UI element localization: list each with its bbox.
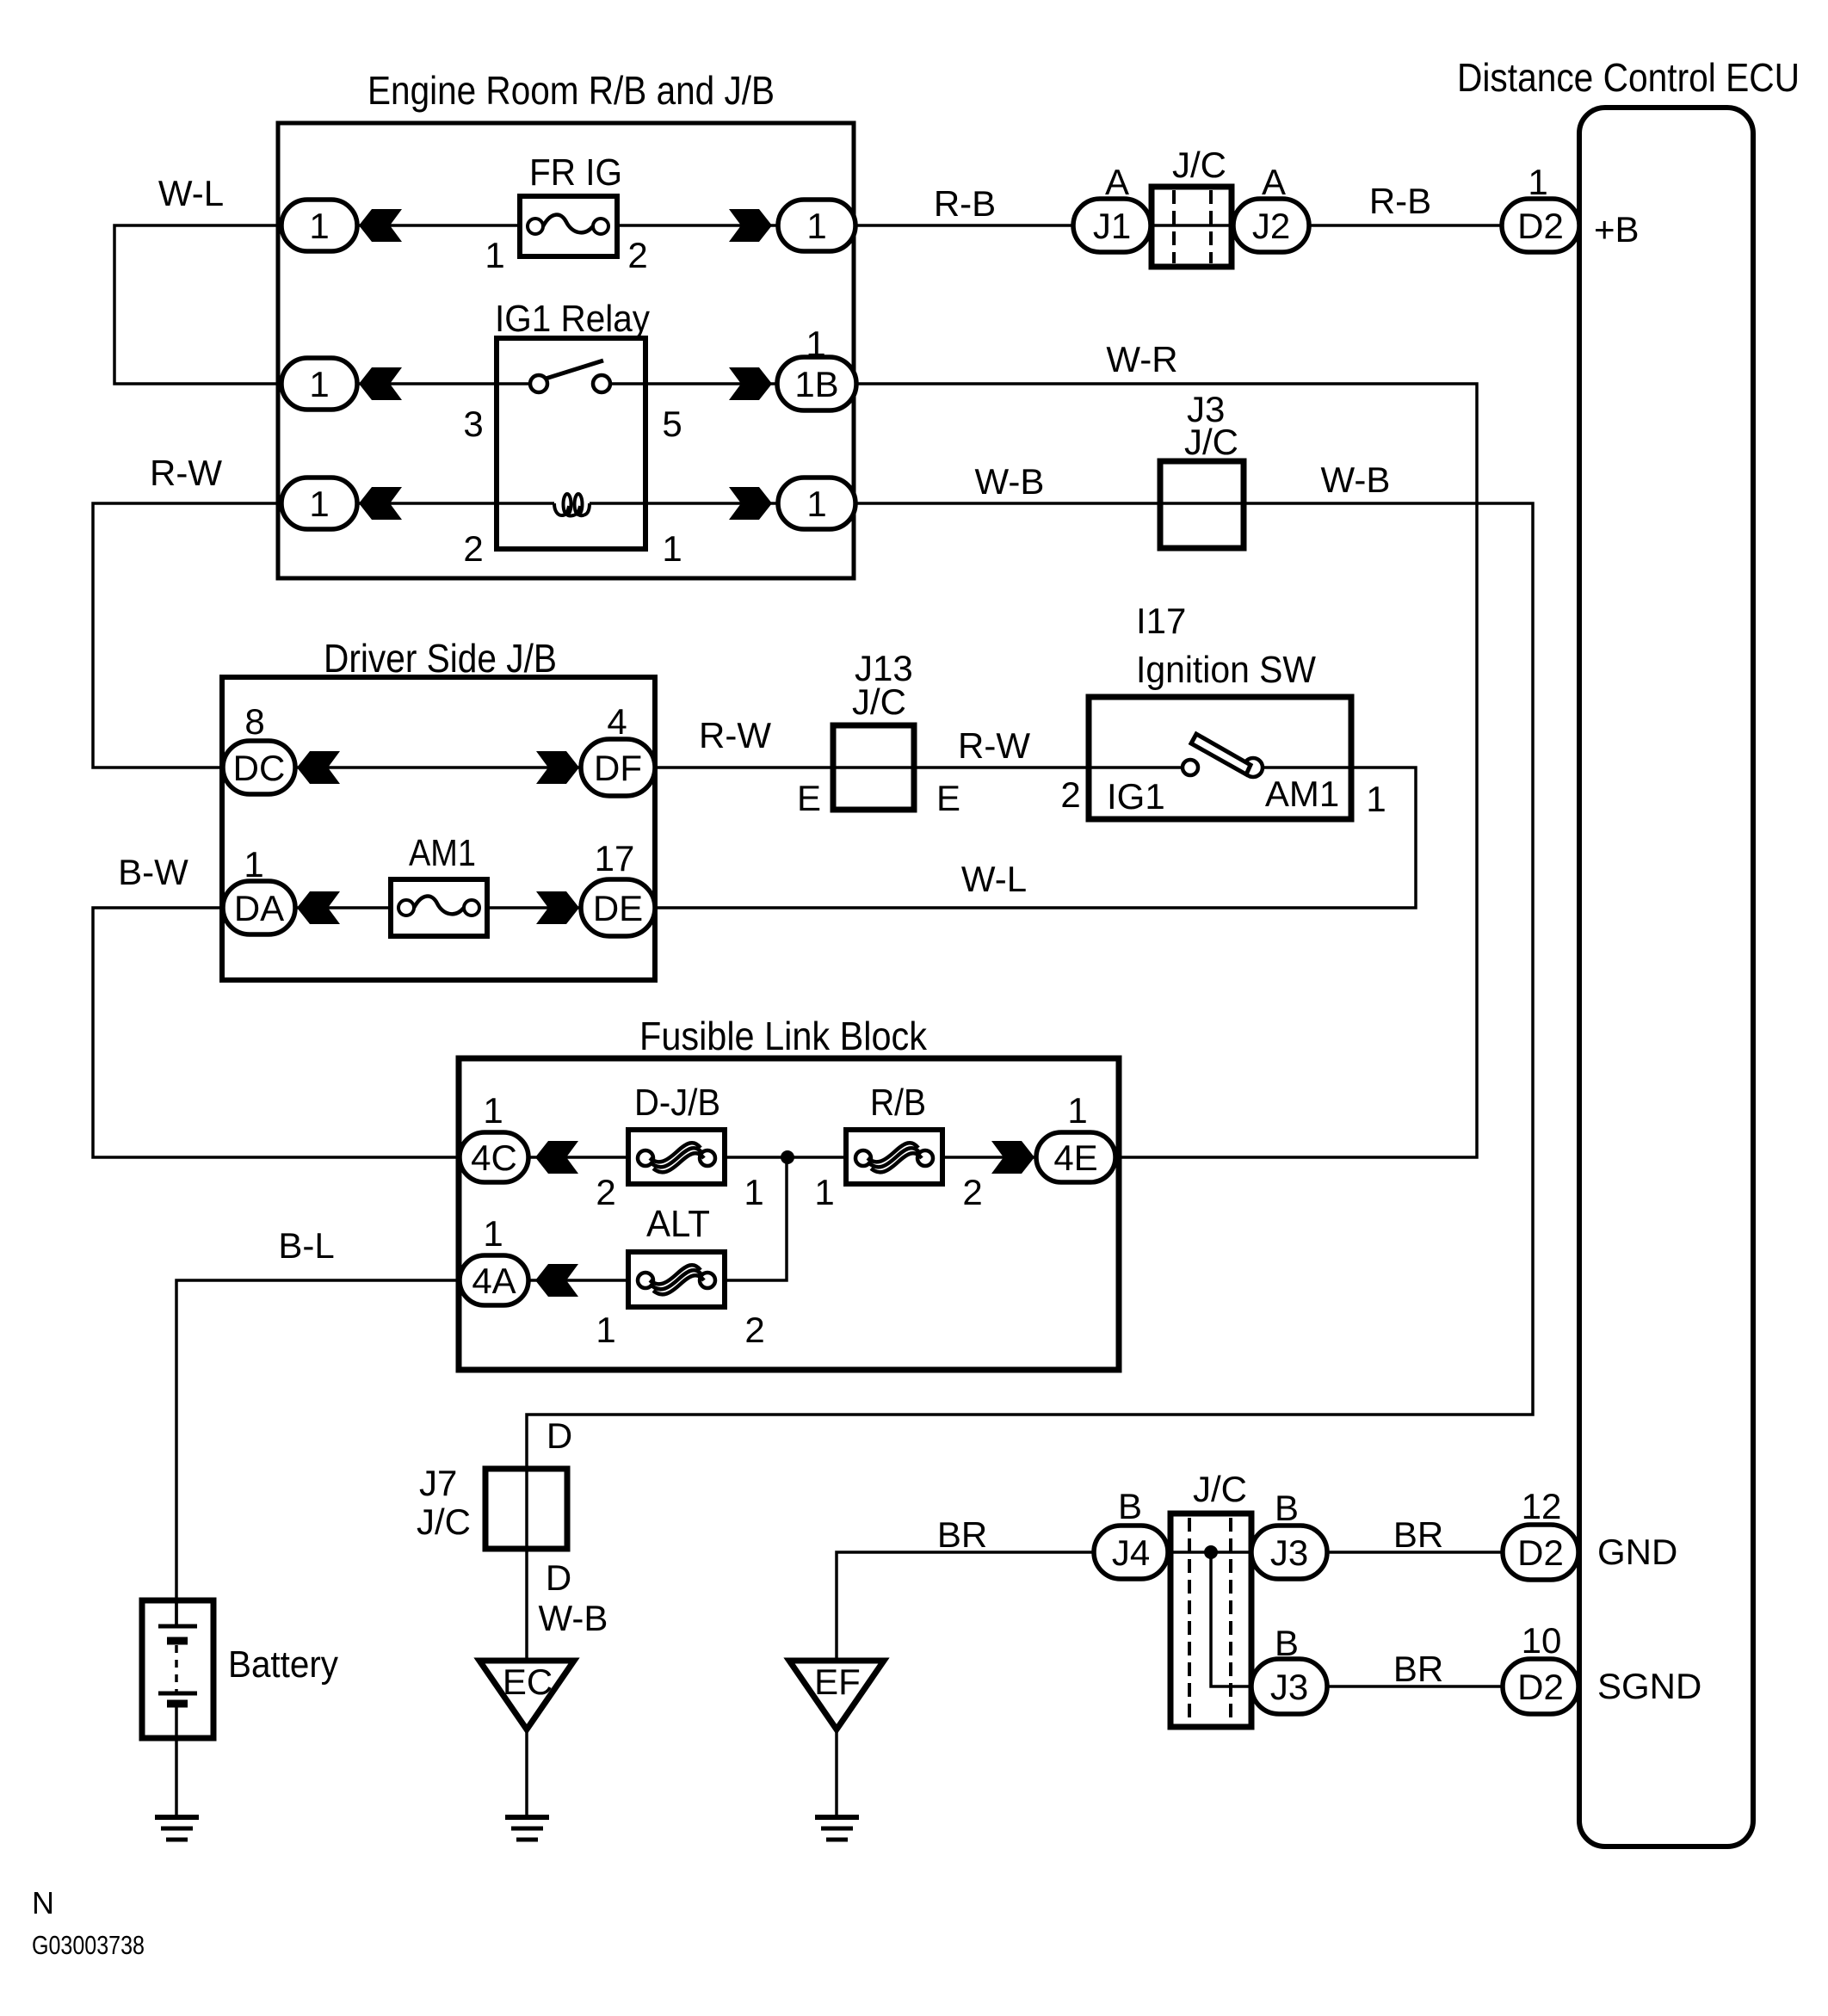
ground triangle EF (789, 1661, 884, 1729)
connector oval 4A pin 1 (460, 1255, 528, 1305)
box Fusible Link Block (459, 1058, 1119, 1370)
arrow chevron engine row3 left (359, 487, 402, 520)
connector oval DC pin 8 (223, 741, 295, 794)
svg-text:R/B: R/B (870, 1082, 926, 1124)
fuse FR IG box (520, 196, 617, 256)
connector oval J2 (1233, 199, 1309, 252)
arrow chevron 4A (535, 1264, 578, 1297)
relay contact lever (546, 361, 603, 379)
svg-text:E: E (797, 778, 821, 818)
svg-text:2: 2 (463, 528, 483, 569)
wire BR row J3 to D2 SGND (1289, 1685, 1541, 1688)
svg-text:J3: J3 (1270, 1532, 1308, 1573)
wire W-B from engine row3 through J3 J/C down and left to J7 (527, 503, 1533, 1659)
svg-text:10: 10 (1522, 1620, 1562, 1661)
svg-text:Fusible Link Block: Fusible Link Block (639, 1014, 928, 1058)
svg-text:D: D (547, 1415, 572, 1456)
connector oval J3 lower (1251, 1659, 1327, 1714)
svg-text:5: 5 (662, 404, 682, 444)
svg-text:D2: D2 (1517, 1667, 1564, 1707)
svg-text:1: 1 (485, 235, 504, 275)
svg-text:Engine Room R/B and J/B: Engine Room R/B and J/B (367, 68, 775, 113)
fusible link D-J/B element (638, 1150, 653, 1166)
svg-text:Distance Control ECU: Distance Control ECU (1457, 55, 1800, 100)
junction connector J/C (J1-J2) box (1152, 187, 1232, 267)
svg-text:R-B: R-B (1369, 181, 1431, 221)
svg-text:J1: J1 (1093, 206, 1131, 246)
connector oval 1B pin 1 (777, 357, 856, 410)
svg-text:J/C: J/C (1184, 422, 1238, 462)
svg-text:SGND: SGND (1597, 1666, 1701, 1706)
svg-text:1: 1 (744, 1172, 763, 1212)
svg-text:J/C: J/C (1193, 1469, 1247, 1509)
wire engine row3 internal (319, 502, 817, 505)
svg-text:1: 1 (806, 484, 826, 524)
arrow chevron 4E (991, 1141, 1034, 1174)
svg-text:BR: BR (1393, 1649, 1443, 1689)
svg-text:IG1: IG1 (1107, 776, 1165, 817)
svg-text:D2: D2 (1517, 1532, 1564, 1573)
relay contact stubs (497, 382, 645, 385)
fusible link D-J/B box (628, 1130, 725, 1184)
ground triangle EC (479, 1661, 574, 1729)
connector oval engine row3 left pin 1 (281, 478, 357, 529)
connector oval engine row3 right pin 1 (778, 478, 855, 529)
svg-text:1: 1 (806, 206, 826, 246)
wire engine row1 internal (319, 224, 817, 227)
svg-text:4E: 4E (1053, 1137, 1097, 1178)
wire W-R from 1B down to 4E (817, 384, 1477, 1157)
connector oval engine row1 left pin 1 (281, 200, 357, 251)
svg-text:1: 1 (309, 364, 329, 404)
svg-text:1: 1 (483, 1213, 503, 1254)
ignition switch lever (1191, 734, 1251, 774)
wire engine row2 internal (319, 382, 817, 385)
svg-text:EF: EF (814, 1662, 861, 1702)
svg-text:4: 4 (607, 701, 627, 742)
svg-text:2: 2 (1060, 774, 1080, 815)
fusible link R/B box (846, 1130, 942, 1184)
svg-text:D2: D2 (1517, 206, 1564, 246)
junction connector J13 J/C box (833, 725, 914, 810)
fusible link ALT box (628, 1252, 725, 1307)
svg-text:Battery: Battery (228, 1643, 338, 1686)
connector oval D2 pin 12 (GND) (1503, 1525, 1578, 1580)
fusible link ALT element (638, 1273, 653, 1288)
svg-text:DF: DF (594, 748, 642, 788)
connector oval engine row1 right pin 1 (778, 200, 855, 251)
wire battery to ground (175, 1703, 178, 1817)
svg-text:1: 1 (483, 1090, 503, 1131)
arrow chevron engine row3 right (729, 487, 772, 520)
wire W-L from AM1 contact down to DE (618, 768, 1416, 908)
svg-text:1: 1 (662, 528, 682, 569)
junction connector J/C tall box (J4/J3) (1170, 1514, 1251, 1727)
arrow chevron engine row2 left (359, 367, 402, 400)
relay coil (554, 494, 590, 515)
wire EC triangle to ground (525, 1729, 528, 1817)
svg-text:1B: 1B (794, 364, 838, 404)
svg-text:2: 2 (627, 235, 647, 275)
svg-text:1: 1 (1528, 162, 1547, 202)
connector oval 4C pin 1 (460, 1132, 528, 1182)
svg-text:W-B: W-B (539, 1598, 608, 1638)
arrow chevron 4C (535, 1141, 578, 1174)
connector oval J4 (1094, 1526, 1168, 1579)
relay contact terminals (530, 375, 547, 392)
wire 4C-4E row (494, 1156, 1076, 1159)
node junction dot in tall J/C (1204, 1545, 1218, 1559)
wire EF up and BR row to D2 GND (837, 1552, 1541, 1729)
svg-text:AM1: AM1 (1265, 774, 1339, 814)
svg-text:1: 1 (309, 484, 329, 524)
svg-text:BR: BR (937, 1514, 987, 1555)
svg-text:DA: DA (234, 888, 284, 928)
svg-text:FR IG: FR IG (529, 151, 622, 194)
svg-text:B: B (1275, 1488, 1299, 1528)
svg-text:1: 1 (1366, 779, 1386, 819)
connector oval engine row2 left pin 1 (281, 358, 357, 410)
svg-text:IG1 Relay: IG1 Relay (495, 298, 650, 340)
fusible link R/B element (855, 1150, 871, 1166)
battery internal dashed center (175, 1645, 178, 1692)
ground battery (155, 1817, 199, 1840)
svg-text:ALT: ALT (646, 1203, 710, 1245)
svg-text:4A: 4A (472, 1261, 516, 1301)
svg-text:GND: GND (1597, 1532, 1677, 1572)
connector oval J1 (1073, 199, 1151, 252)
relay box IG1 Relay (497, 338, 645, 549)
svg-text:AM1: AM1 (409, 832, 476, 874)
fuse AM1 element (398, 900, 414, 916)
connector oval 4E pin 1 (1036, 1132, 1115, 1182)
svg-text:1: 1 (806, 324, 825, 364)
svg-text:J/C: J/C (1172, 145, 1226, 185)
svg-text:EC: EC (503, 1662, 553, 1702)
svg-text:A: A (1105, 162, 1129, 202)
ignition switch I17 box (1089, 697, 1351, 819)
connector oval DA pin 1 (223, 881, 295, 934)
svg-text:J/C: J/C (417, 1501, 471, 1542)
svg-text:J2: J2 (1252, 206, 1290, 246)
svg-text:A: A (1262, 162, 1286, 202)
connector oval J3 upper (1251, 1526, 1327, 1579)
connector oval D2 pin 1 (+B) (1502, 199, 1579, 252)
arrow chevron DA (297, 891, 340, 924)
svg-text:+B: +B (1594, 209, 1640, 250)
svg-text:Driver Side J/B: Driver Side J/B (324, 636, 557, 681)
svg-text:J7: J7 (419, 1463, 457, 1503)
svg-text:12: 12 (1522, 1486, 1562, 1526)
svg-text:W-B: W-B (975, 461, 1045, 502)
svg-text:G03003738: G03003738 (32, 1930, 145, 1960)
wire internal J/C junction to lower J3 (1211, 1552, 1289, 1686)
arrow chevron DF (536, 751, 579, 784)
svg-text:J/C: J/C (852, 681, 906, 722)
arrow chevron DE (536, 891, 579, 924)
connector oval DE pin 17 (581, 879, 655, 936)
svg-text:1: 1 (244, 844, 263, 885)
svg-text:W-R: W-R (1106, 339, 1177, 379)
svg-text:Ignition SW: Ignition SW (1136, 649, 1316, 691)
arrow chevron engine row1 left (359, 209, 402, 242)
svg-text:DC: DC (233, 748, 286, 788)
svg-text:1: 1 (1067, 1090, 1087, 1131)
connector oval D2 pin 10 (SGND) (1503, 1659, 1578, 1714)
svg-text:B-L: B-L (278, 1225, 334, 1266)
battery plates (158, 1625, 197, 1629)
svg-text:B-W: B-W (118, 852, 188, 892)
wire DA-DE row (259, 906, 618, 909)
svg-text:W-L: W-L (961, 859, 1027, 899)
box Driver Side J/B (222, 677, 655, 980)
svg-text:1: 1 (309, 206, 329, 246)
arrow chevron DC (297, 751, 340, 784)
wire DC-DF row through J13 to IG1 contact (259, 766, 1183, 769)
connector oval DF pin 4 (581, 739, 655, 796)
battery top wire stub (175, 1600, 178, 1626)
svg-text:R-W: R-W (958, 725, 1030, 766)
arrow chevron engine row2 right (729, 367, 772, 400)
wire W-L loop from engine row1 to row2 (114, 225, 319, 384)
relay coil stubs (497, 502, 645, 505)
svg-text:DE: DE (593, 888, 643, 928)
svg-text:N: N (32, 1885, 54, 1920)
svg-text:8: 8 (244, 701, 264, 742)
wire R-B row1 to ECU +B (817, 224, 1541, 227)
svg-text:J3: J3 (1270, 1667, 1308, 1707)
svg-text:3: 3 (463, 404, 483, 444)
ground EF (815, 1817, 859, 1840)
svg-text:W-B: W-B (1321, 459, 1391, 500)
wire R-W from engine row3 to DC (93, 503, 319, 768)
wire ALT to junction node (494, 1157, 787, 1280)
svg-text:1: 1 (596, 1310, 615, 1350)
svg-text:R-W: R-W (150, 453, 222, 493)
svg-text:4C: 4C (471, 1137, 517, 1178)
svg-text:R-W: R-W (699, 715, 771, 755)
svg-text:I17: I17 (1136, 601, 1186, 641)
svg-text:D: D (546, 1557, 571, 1598)
box Distance Control ECU (1579, 108, 1753, 1846)
svg-text:2: 2 (596, 1172, 615, 1212)
node junction dot D-J/B / R/B / ALT (781, 1150, 794, 1164)
wire B-L from 4A down to battery (176, 1280, 494, 1626)
svg-text:17: 17 (595, 838, 635, 879)
svg-text:R-B: R-B (934, 183, 996, 224)
svg-text:2: 2 (962, 1172, 982, 1212)
svg-text:1: 1 (814, 1172, 834, 1212)
ground EC (505, 1817, 549, 1840)
svg-text:D-J/B: D-J/B (634, 1082, 720, 1124)
fuse FR IG element (528, 219, 543, 234)
fuse AM1 box (391, 879, 487, 936)
wire B-W from DA down to 4C (93, 908, 494, 1157)
svg-text:J4: J4 (1112, 1532, 1150, 1573)
ignition switch IG1 terminal (1183, 760, 1198, 775)
battery box (142, 1600, 213, 1738)
svg-text:B: B (1118, 1486, 1142, 1526)
wire EF triangle to ground (835, 1729, 838, 1817)
junction connector J7 J/C box (485, 1469, 567, 1549)
svg-text:W-L: W-L (158, 173, 224, 213)
ignition switch AM1 terminal (1244, 758, 1263, 777)
svg-text:BR: BR (1393, 1514, 1443, 1555)
svg-text:B: B (1275, 1623, 1299, 1663)
junction connector J3 J/C box (row3) (1160, 461, 1244, 548)
arrow chevron engine row1 right (729, 209, 772, 242)
svg-text:2: 2 (744, 1310, 764, 1350)
svg-text:E: E (936, 778, 960, 818)
box Engine Room R/B and J/B (278, 123, 854, 578)
